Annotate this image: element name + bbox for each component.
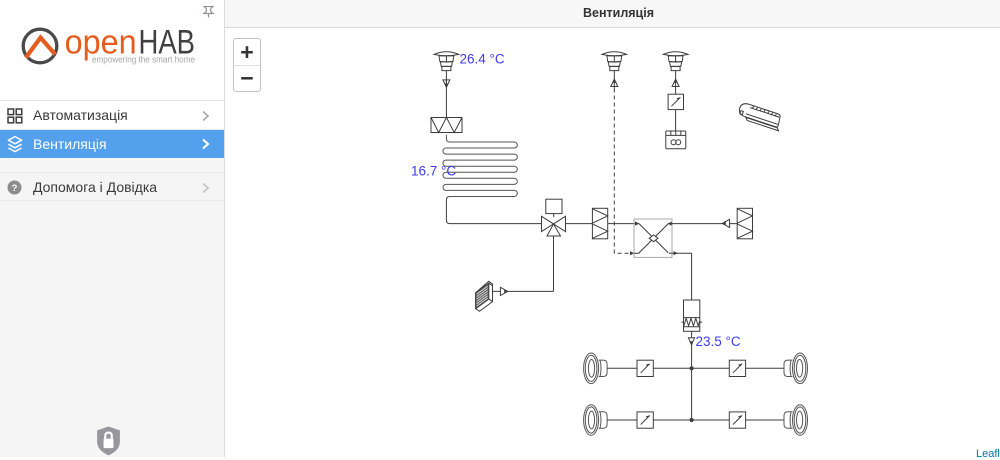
sidebar (0, 0, 225, 457)
damper D1 (592, 208, 607, 239)
wire (746, 419, 785, 421)
wire (746, 367, 785, 369)
grille G1 (intake louvre) (476, 281, 493, 311)
diffuser DF1 (584, 353, 608, 384)
menu item 3 (0, 172, 224, 201)
diffuser DF3 (584, 405, 608, 436)
wire (607, 419, 637, 421)
AC unit (split indoor) (737, 102, 784, 131)
wire (607, 367, 637, 369)
wire: exhaust duct (dashed) (614, 89, 629, 254)
wire: damper D1 to heat exchanger (608, 223, 639, 225)
flow arrow left (hollow+tip) (722, 219, 729, 227)
wire (653, 419, 729, 421)
heat exchanger HX1 (634, 219, 678, 257)
wire: coil outlet to valve (446, 196, 541, 223)
shield lock icon (96, 426, 121, 456)
diffuser DF2 (784, 353, 808, 384)
menu item 1 (0, 100, 224, 130)
duct heater H1 (682, 300, 703, 331)
svg-text:23.5 °C: 23.5 °C (696, 334, 741, 349)
flow arrow down (supply to rooms) (688, 338, 694, 345)
roof vent V2 (exhaust) (602, 52, 627, 89)
damper DD4 (729, 412, 745, 428)
wire: heater down to rows (691, 331, 693, 420)
wire: valve to corner (553, 236, 555, 291)
pin icon (203, 5, 214, 19)
wire: exchanger outlet to heater (669, 253, 692, 300)
flow arrow right (hollow+tip) (500, 287, 507, 295)
svg-text:16.7 °C: 16.7 °C (411, 164, 456, 179)
wire: grille to valve branch (493, 290, 554, 292)
damper DD1 (637, 360, 653, 376)
wire: V1 stem (445, 71, 447, 88)
heating coil HC1 (serpentine) (443, 135, 517, 197)
junction node J1 (690, 366, 694, 370)
wire (653, 367, 729, 369)
fan FN1 (666, 131, 686, 149)
leaflet attribution (976, 448, 1000, 460)
filter F1 (431, 118, 462, 133)
openHAB logo (20, 25, 200, 67)
roof vent V3 (exhaust fan stack) (663, 52, 688, 89)
diffuser DF4 (784, 405, 808, 436)
menu item 2 active (0, 130, 224, 158)
wire: exchanger to damper D2 (668, 223, 737, 225)
damper D2 (737, 208, 752, 239)
three-way valve VL1 actuator (546, 199, 562, 213)
zoom control (233, 38, 261, 92)
damper DD2 (729, 360, 745, 376)
junction node J2 (690, 418, 694, 422)
wire: vent V3 to damper D3 (675, 89, 677, 95)
top bar (225, 0, 1000, 28)
damper D3 (with actuator arrow) (668, 94, 683, 109)
wire: damper D3 to fan FN1 (675, 110, 677, 131)
flow arrow into exchanger (solid) (630, 251, 634, 255)
wire: valve to damper D1 (566, 223, 593, 225)
roof vent V1 (supply intake) (434, 52, 459, 71)
svg-text:26.4 °C: 26.4 °C (460, 52, 505, 67)
three-way valve VL1 body (542, 216, 554, 231)
damper DD3 (637, 412, 653, 428)
flow arrow down (supply) (443, 80, 450, 118)
